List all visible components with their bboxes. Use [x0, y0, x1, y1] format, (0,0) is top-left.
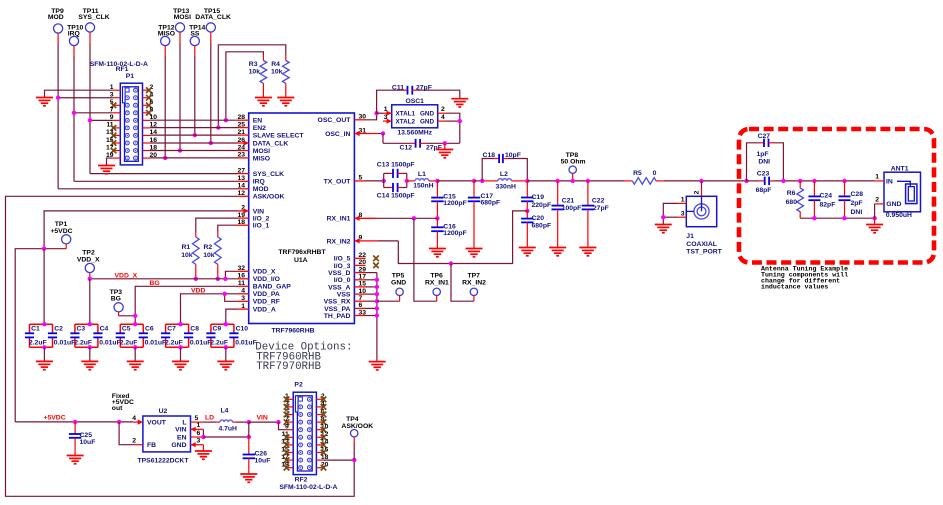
wire TP10 vertical [73, 57, 75, 182]
wire VIN net to P2 [249, 421, 279, 423]
svg-text:TST_PORT: TST_PORT [686, 248, 722, 255]
svg-text:0.01uF: 0.01uF [145, 340, 167, 347]
U1 pin 28 (EN) stub [238, 119, 249, 121]
svg-text:SYS_CLK: SYS_CLK [78, 14, 109, 21]
svg-text:IN: IN [886, 178, 893, 185]
svg-text:24: 24 [237, 144, 245, 151]
no-connect X P2 pin 19 [284, 465, 290, 471]
svg-text:13: 13 [237, 175, 245, 182]
junction RX_IN2/TP7 riser [449, 261, 453, 265]
ground below R3 [255, 98, 272, 106]
svg-text:FB: FB [147, 442, 156, 449]
IC U1A TRF796xRHBT [249, 113, 355, 324]
svg-text:C21: C21 [562, 197, 575, 204]
svg-text:18: 18 [237, 219, 245, 226]
capacitor C28 2pF DNI [844, 181, 846, 197]
U1 pin 31 (OSC_IN) stub [354, 133, 377, 135]
junction R6 tap [798, 179, 802, 183]
wire TP6 riser to RX_IN1 [414, 218, 437, 301]
wire IRQ net TP10 to U1 pin13 [74, 180, 238, 182]
U1 pin 1 (VDD_A) stub [238, 308, 249, 310]
U1 pin 12 (ASK/OOK) stub [238, 195, 249, 197]
svg-text:3: 3 [384, 114, 388, 121]
U1 pin 5 (TX_OUT) stub [354, 180, 365, 182]
P2 pin 6 stub [316, 414, 324, 416]
junction C7 top [178, 322, 182, 326]
P2 pin 18 stub [316, 459, 324, 461]
svg-text:GND: GND [420, 111, 434, 118]
P2 pin 7 stub [286, 421, 293, 423]
junction R1/VDD_X [194, 277, 198, 281]
ground VSS bus [369, 362, 386, 370]
junction L1/C15 [435, 179, 439, 183]
no-connect X P2 pin 4 [321, 404, 327, 410]
capacitor C5 2.2uF [120, 323, 143, 325]
svg-text:LD: LD [205, 414, 214, 421]
junction C9 bottom [224, 345, 228, 349]
wire VIN net from U1 pin2 [44, 211, 237, 249]
capacitor C15 1200pF [436, 181, 438, 198]
wire BG line [135, 286, 237, 324]
svg-text:MOD: MOD [253, 186, 269, 193]
junction C9 top [224, 322, 228, 326]
svg-text:VSS: VSS [337, 292, 351, 299]
svg-text:5: 5 [195, 415, 199, 422]
svg-text:VDD_RF: VDD_RF [253, 299, 280, 306]
junction OSC_IN [381, 131, 385, 135]
junction C19/C20/RX_IN2 [525, 209, 529, 213]
wire P1 pin 10 to U1 [150, 119, 237, 121]
junction P1 pin7/TP10 [72, 111, 76, 115]
svg-text:0.950uH: 0.950uH [886, 212, 912, 219]
resistor R2 10k [215, 237, 222, 265]
wire TP5 to VSS bus [377, 300, 400, 302]
P1 pin 17 stub [113, 150, 121, 152]
wire R4 top to EN2 [218, 45, 285, 128]
wire TP12 vertical [164, 57, 166, 158]
wire VDD_X line [90, 278, 238, 280]
wire P1 pin9 to SYS_CLK [90, 119, 113, 121]
svg-text:IRQ: IRQ [253, 179, 265, 186]
P1 pin 19 stub [113, 157, 121, 159]
inductor L4 4.7uH [203, 421, 216, 423]
P2 pin 11 stub [286, 436, 293, 438]
junction C5 top [133, 322, 137, 326]
P2 pin 9 stub [286, 429, 293, 431]
junction L2/C19 [525, 179, 529, 183]
svg-text:31: 31 [359, 127, 367, 134]
svg-text:VIN: VIN [175, 427, 186, 434]
svg-text:VIN: VIN [253, 208, 264, 215]
svg-text:29: 29 [359, 266, 367, 273]
P1 pin 20 stub [143, 157, 151, 159]
test point TP15 (DATA_CLK) [206, 23, 215, 32]
svg-text:U2: U2 [159, 408, 168, 415]
wire TP11 vertical [89, 43, 91, 174]
P2 pin 10 stub [316, 429, 324, 431]
svg-text:220pF: 220pF [532, 202, 552, 209]
svg-text:TP4: TP4 [346, 416, 359, 423]
no-connect X P1 pin 15 [111, 140, 117, 146]
svg-text:GND: GND [391, 279, 406, 286]
P1 pin 12 stub [143, 127, 151, 129]
ground below C25 [67, 456, 84, 464]
svg-text:MOD: MOD [48, 14, 64, 21]
svg-text:0.01uF: 0.01uF [235, 340, 257, 347]
svg-text:R2: R2 [203, 244, 212, 251]
U2 pin2 FB stub [135, 444, 143, 446]
U1 pin 22 (I/O_5) stub [354, 257, 365, 259]
P2 pin 1 stub [286, 398, 293, 400]
svg-text:10uF: 10uF [80, 439, 96, 446]
U1 pin 17 (I/O_0) stub [354, 279, 365, 281]
junction R3/EN [224, 118, 228, 122]
U1 pin 30 (OSC_OUT) stub [354, 119, 365, 121]
P1 pin 3 stub [113, 97, 121, 99]
capacitor C4 0.01uF [97, 324, 99, 333]
wire P1 pin3 to MOD [58, 97, 113, 99]
svg-text:C11: C11 [392, 85, 404, 92]
svg-text:C25: C25 [80, 432, 93, 439]
svg-text:GND: GND [171, 442, 186, 449]
svg-text:BG: BG [111, 296, 121, 303]
P2 pin 5 stub [286, 414, 293, 416]
J1 pin1 stub [678, 202, 687, 204]
svg-text:C24: C24 [820, 192, 833, 199]
junction C5 bottom [133, 345, 137, 349]
wire P1 pin19 to ground [107, 158, 113, 165]
wire +5VDC to left rail [15, 249, 66, 422]
ground below U2 [195, 451, 212, 459]
test point TP13 (MOSI) [175, 23, 184, 32]
svg-text:COAXIAL: COAXIAL [686, 241, 717, 248]
svg-text:100pF: 100pF [562, 205, 582, 212]
svg-text:28: 28 [237, 114, 245, 121]
wire U1 pin1 to C9 [226, 309, 238, 324]
capacitor C7 2.2uF [166, 323, 189, 325]
ground below ANT1 [874, 218, 876, 224]
wire P1 pin 14 to U1 [150, 134, 237, 136]
svg-text:SS: SS [190, 30, 200, 37]
U2 pin4 VOUT stub [133, 421, 143, 423]
wire TP2 riser to C3 [89, 279, 91, 324]
svg-text:TH_PAD: TH_PAD [324, 313, 351, 320]
wire U1 pin32 jog to VDD_X [225, 271, 237, 279]
P1 pin 9 stub [113, 119, 121, 121]
svg-text:+5VDC: +5VDC [50, 228, 72, 235]
P1 pin 8 stub [143, 112, 151, 114]
svg-text:11: 11 [238, 280, 245, 287]
junction C12/ground [443, 141, 447, 145]
capacitor C6 0.01uF [142, 324, 144, 333]
wire ASK/OOK net loop [6, 196, 355, 496]
svg-text:C12: C12 [400, 144, 413, 151]
P1 pin 10 stub [143, 119, 151, 121]
svg-text:VSS_RX: VSS_RX [324, 299, 351, 306]
wire RX_IN2 route [377, 240, 398, 242]
resistor R3 10k [260, 61, 267, 84]
no-connect X P2 pin 15 [284, 450, 290, 456]
junction R2/VDD_X [216, 277, 220, 281]
svg-text:19: 19 [237, 212, 245, 219]
svg-text:SLAVE SELECT: SLAVE SELECT [253, 133, 305, 140]
P1 pin 5 stub [113, 104, 121, 106]
ground at P1 pin19 [98, 166, 115, 174]
svg-text:C7: C7 [167, 326, 176, 333]
svg-text:DATA_CLK: DATA_CLK [195, 14, 231, 21]
P1 pin 13 stub [113, 134, 121, 136]
no-connect X P1 pin 5 [111, 102, 117, 108]
U1 pin 8 (RX_IN1) stub [354, 217, 377, 219]
U1 pin 29 (VSS_D) stub [354, 272, 365, 274]
svg-text:SFM-110-02-L-D-A: SFM-110-02-L-D-A [279, 484, 337, 491]
wire R3 top to EN [226, 52, 264, 120]
ground below C3 [81, 361, 98, 369]
svg-text:ASK/OOK: ASK/OOK [341, 423, 373, 430]
svg-text:5: 5 [359, 175, 363, 182]
no-connect X P1 pin 17 [111, 148, 117, 154]
svg-text:SYS_CLK: SYS_CLK [253, 171, 284, 178]
capacitor C27 1pF DNI [747, 143, 760, 181]
U2 pin5 L stub [191, 421, 204, 423]
svg-text:+5VDC: +5VDC [44, 415, 66, 422]
no-connect X P1 pin 4 [146, 95, 152, 101]
svg-text:U1A: U1A [294, 257, 308, 264]
junction TP8/main line [571, 179, 575, 183]
wire main line to R5 [527, 180, 624, 182]
svg-text:R1: R1 [181, 244, 190, 251]
ground below C9 [217, 361, 234, 369]
P2 pin 15 stub [286, 452, 293, 454]
resistor R4 10k [283, 61, 290, 84]
capacitor C1 2.2uF [30, 323, 53, 325]
wire TP13 vertical [179, 43, 181, 151]
svg-text:VDD_X: VDD_X [77, 256, 100, 263]
P2 pin 12 stub [316, 436, 324, 438]
svg-text:330nH: 330nH [495, 184, 515, 191]
junction VIN/P2 tap [276, 420, 280, 424]
no-connect X P2 pin 17 [284, 457, 290, 463]
no-connect X P2 pin 1 [284, 397, 290, 403]
svg-text:1: 1 [875, 174, 879, 181]
wire J1 pins to ground [663, 203, 677, 224]
svg-text:R6: R6 [787, 190, 796, 197]
svg-text:10k: 10k [249, 68, 261, 75]
test point TP12 (MISO) [161, 36, 170, 45]
svg-text:13.560MHz: 13.560MHz [397, 129, 432, 136]
svg-text:C28: C28 [851, 191, 864, 198]
P1 pin 15 stub [113, 142, 121, 144]
svg-text:TRF7960RHB: TRF7960RHB [271, 328, 314, 335]
junction OSC_OUT/C11 [374, 111, 378, 115]
U2 pin3 GND stub [191, 444, 204, 446]
svg-text:BG: BG [150, 280, 160, 287]
junction C1 top [42, 322, 46, 326]
svg-text:C18: C18 [483, 152, 496, 159]
junction C25 tap [73, 420, 77, 424]
svg-text:C23: C23 [757, 170, 770, 177]
junction TP3/BG riser [133, 314, 137, 318]
svg-text:1: 1 [681, 197, 685, 204]
ground below C20 [519, 248, 536, 256]
wire OSC_IN riser to C12 [382, 134, 384, 144]
svg-text:10pF: 10pF [505, 152, 521, 159]
svg-text:2: 2 [441, 106, 445, 113]
svg-text:VOUT: VOUT [147, 420, 167, 427]
junction pin3/VDD [223, 292, 227, 296]
no-connect X U1 pin22 [373, 256, 379, 262]
svg-text:P2: P2 [294, 382, 303, 389]
svg-text:1: 1 [197, 422, 201, 429]
svg-text:50 Ohm: 50 Ohm [561, 159, 586, 166]
ground below C12 [436, 150, 453, 158]
svg-text:VIN: VIN [257, 414, 268, 421]
wire main line C15 to C17 [437, 180, 474, 182]
wire SYS_CLK net TP11 to U1 pin27 [90, 173, 238, 175]
P1 pin 11 stub [113, 127, 121, 129]
U1 pin 23 (MISO) stub [238, 157, 249, 159]
svg-text:0: 0 [653, 170, 657, 177]
svg-text:DNI: DNI [851, 209, 863, 216]
test point TP14 (SS) [190, 36, 199, 45]
svg-text:C10: C10 [236, 326, 249, 333]
svg-text:I/O_0: I/O_0 [334, 277, 351, 284]
junction J1 pin3/gnd [661, 215, 665, 219]
U1 pin 18 (I/O_1) stub [238, 224, 249, 226]
wire C5 to ground [134, 347, 136, 361]
svg-text:VSS_PA: VSS_PA [324, 306, 350, 313]
U1 pin 2 (VIN) stub [238, 210, 249, 212]
junction C13-C14/L1 [405, 179, 409, 183]
OSC1 pin2 stub [438, 112, 446, 114]
U1 pin 32 (VDD_X) stub [238, 270, 249, 272]
connector P2 SFM-110-02-L-D-A [293, 392, 316, 474]
P2 pin 13 stub [286, 444, 293, 446]
ground below C5 [127, 361, 144, 369]
svg-text:27: 27 [237, 167, 245, 174]
svg-text:XTAL1: XTAL1 [396, 111, 416, 118]
svg-text:TX_OUT: TX_OUT [324, 178, 352, 185]
svg-text:L2: L2 [500, 171, 508, 178]
svg-text:GND: GND [886, 201, 901, 208]
ground below C26 [240, 474, 257, 482]
P2 pin 19 stub [286, 467, 293, 469]
P1 pin 6 stub [143, 104, 151, 106]
svg-text:C3: C3 [77, 326, 86, 333]
no-connect X P2 pin 11 [284, 435, 290, 441]
junction J1 tap [699, 179, 703, 183]
wire U1 pin30 to crystal [366, 113, 377, 120]
svg-text:RX_IN1: RX_IN1 [425, 279, 449, 286]
svg-text:1200pF: 1200pF [443, 230, 466, 237]
svg-text:10k: 10k [271, 68, 283, 75]
U1 pin 4 (VDD_PA) stub [238, 293, 249, 295]
wire P2 pin18 to TP4 [324, 459, 354, 461]
wire step to P2 pin9 [279, 422, 286, 430]
J1 pin3 stub [678, 216, 687, 218]
no-connect X P2 pin 2 [321, 397, 327, 403]
resistor R5 0 [624, 180, 632, 182]
U1 pin 3 (VDD_RF) stub [238, 300, 249, 302]
junction TP4 [352, 458, 356, 462]
no-connect X U1 pin20 [373, 263, 379, 269]
svg-text:27pF: 27pF [593, 205, 609, 212]
no-connect X P2 pin 14 [321, 442, 327, 448]
svg-text:VDD_X: VDD_X [115, 272, 138, 279]
svg-text:10k: 10k [203, 252, 215, 259]
junction C3 top [88, 322, 92, 326]
svg-text:82pF: 82pF [820, 202, 836, 209]
no-connect X P2 pin 13 [284, 442, 290, 448]
wire C3 to ground [89, 347, 91, 361]
svg-text:0.01uF: 0.01uF [54, 340, 76, 347]
svg-text:25: 25 [237, 121, 245, 128]
svg-text:1200pF: 1200pF [443, 200, 466, 207]
resistor R1 10k [193, 237, 200, 265]
wire U1 pin18 to R2 [218, 225, 238, 231]
capacitor C25 10uF [74, 422, 76, 434]
junction pin32/VDD_X [223, 277, 227, 281]
U1 pin 6 (VSS_PA) stub [354, 307, 365, 309]
no-connect X P2 pin 20 [321, 465, 327, 471]
svg-text:EN: EN [253, 118, 263, 125]
capacitor C22 27pF [586, 179, 590, 183]
svg-text:1: 1 [241, 303, 245, 310]
svg-text:22: 22 [359, 252, 367, 259]
wire FB riser [119, 422, 135, 445]
svg-text:OSC_IN: OSC_IN [325, 131, 350, 138]
svg-text:EN: EN [177, 434, 187, 441]
svg-text:VSS_A: VSS_A [328, 284, 350, 291]
P1 pin 18 stub [143, 150, 151, 152]
svg-text:2pF: 2pF [851, 200, 863, 207]
crystal OSC1 box [392, 105, 438, 128]
svg-text:C27: C27 [758, 133, 771, 140]
junction TP14/SLAVE SELECT [193, 133, 197, 137]
U1 pin 16 (VDD_I/O) stub [238, 278, 249, 280]
wire tuning ground rail [800, 217, 874, 219]
ground below C22 [579, 248, 596, 256]
svg-text:10: 10 [359, 288, 367, 295]
wire TP3 to BG riser [119, 315, 136, 317]
svg-text:GND: GND [420, 119, 434, 126]
ground below C21 [549, 248, 566, 256]
wire R5 to J1 node [664, 180, 747, 182]
svg-text:RF1: RF1 [116, 66, 129, 73]
svg-text:10k: 10k [181, 252, 193, 259]
U1 pin 27 (SYS_CLK) stub [238, 173, 249, 175]
test point TP9 (MOD) [54, 24, 63, 33]
no-connect X P1 pin 6 [146, 102, 152, 108]
wire RX_IN1 [377, 217, 437, 219]
svg-text:out: out [112, 405, 123, 412]
junction P1 pin3/TP9 [56, 96, 60, 100]
U2 pin1 VIN stub [191, 428, 204, 430]
svg-text:4: 4 [132, 415, 136, 422]
wire TX_OUT [366, 180, 384, 182]
svg-text:C14 1500pF: C14 1500pF [377, 193, 415, 200]
svg-text:10uF: 10uF [255, 458, 271, 465]
junction TP12/MISO [163, 156, 167, 160]
svg-text:0.01uF: 0.01uF [190, 340, 212, 347]
capacitor C17 680pF [472, 179, 476, 183]
svg-text:680pF: 680pF [532, 222, 552, 229]
P1 pin 14 stub [143, 134, 151, 136]
svg-text:ASK/OOK: ASK/OOK [253, 194, 285, 201]
wire crystal GND pins to riser [446, 113, 460, 143]
capacitor C9 2.2uF [211, 323, 234, 325]
wire P1 pin 12 to U1 [150, 127, 237, 129]
